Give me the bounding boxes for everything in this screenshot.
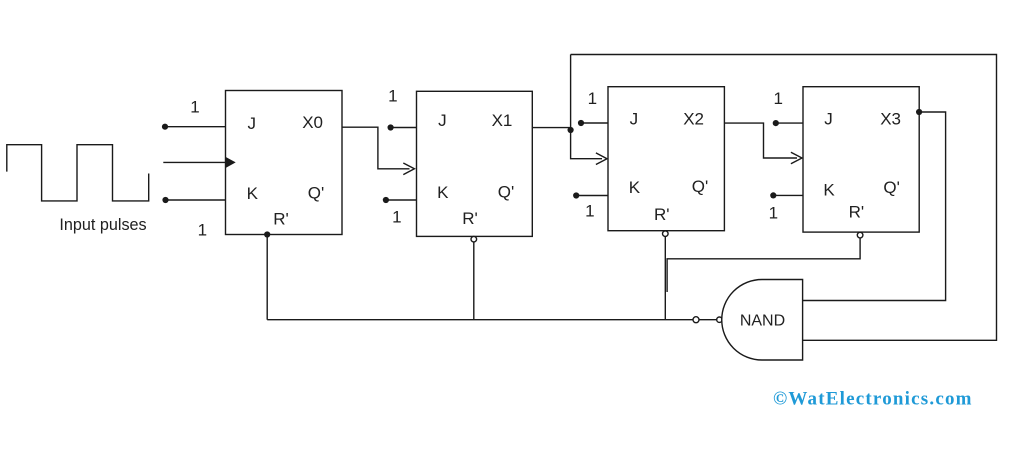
wire R'4 path: [667, 238, 860, 292]
svg-text:R': R': [462, 209, 478, 228]
arrowhead clock FF4 (open): [791, 152, 802, 164]
wire feedback vertical at X1: [571, 55, 602, 159]
svg-text:R': R': [654, 205, 670, 224]
svg-text:1: 1: [190, 98, 199, 117]
node X1 junction dot: [568, 127, 574, 133]
wire clock input FF1: [163, 161, 226, 163]
svg-text:1: 1: [588, 89, 597, 108]
input pulses waveform: [7, 145, 149, 201]
svg-text:K: K: [629, 178, 641, 197]
wire R'1 drop: [266, 235, 268, 320]
wire K input FF1: [166, 199, 226, 201]
flip-flop FF3 box: [608, 87, 724, 231]
node J1 dot: [162, 124, 168, 130]
svg-text:X0: X0: [302, 113, 323, 132]
svg-text:©WatElectronics.com: ©WatElectronics.com: [773, 389, 973, 410]
node X3 tap dot: [916, 109, 922, 115]
wire K input FF3: [576, 195, 608, 197]
flip-flop FF2 box: [417, 91, 533, 236]
node K4 dot: [770, 192, 776, 198]
node K3 dot: [573, 192, 579, 198]
svg-text:X1: X1: [492, 111, 513, 130]
svg-text:1: 1: [388, 87, 397, 106]
svg-text:J: J: [630, 109, 639, 128]
NAND inversion bubble: [717, 317, 722, 322]
svg-text:Q': Q': [883, 178, 899, 197]
svg-text:NAND: NAND: [740, 313, 785, 330]
wire R'3 drop: [664, 237, 666, 320]
svg-text:X3: X3: [880, 109, 901, 128]
svg-text:K: K: [823, 180, 835, 199]
svg-text:1: 1: [773, 89, 782, 108]
svg-text:Q': Q': [308, 183, 324, 202]
bubble R'4: [857, 232, 863, 238]
svg-text:X2: X2: [683, 109, 704, 128]
node J4 dot: [773, 120, 779, 126]
node K1 dot: [162, 197, 168, 203]
node J2 dot: [388, 124, 394, 130]
wire J input FF4: [776, 122, 803, 124]
flip-flop FF4 box: [803, 87, 919, 232]
wire top feedback: [571, 55, 997, 341]
wire R' bus to NAND: [267, 319, 693, 321]
svg-text:J: J: [824, 109, 833, 128]
wire between bubbles: [699, 319, 717, 321]
wire J input FF2: [391, 127, 417, 129]
NAND gate U1 body: [722, 280, 803, 361]
node R'1 dot: [264, 231, 270, 237]
flip-flop FF1 box: [226, 91, 343, 235]
node J3 dot: [578, 120, 584, 126]
svg-text:J: J: [438, 111, 447, 130]
wire X2 to FF4 clock: [724, 123, 797, 158]
wire X3 to NAND input: [803, 112, 946, 301]
svg-text:Q': Q': [498, 182, 514, 201]
arrowhead clock FF2 (open): [403, 163, 414, 175]
wire K input FF2: [386, 199, 417, 201]
arrowhead clock FF3 (open): [596, 153, 607, 165]
svg-text:R': R': [273, 210, 289, 229]
svg-text:1: 1: [585, 201, 594, 220]
wire R'2 drop: [473, 242, 475, 320]
svg-text:R': R': [849, 202, 865, 221]
node K2 dot: [383, 197, 389, 203]
wire J input FF1: [165, 126, 226, 128]
svg-text:1: 1: [392, 207, 401, 226]
wire K input FF4: [773, 194, 803, 196]
arrowhead clock FF1: [226, 157, 236, 168]
svg-text:Input pulses: Input pulses: [59, 216, 146, 234]
svg-text:1: 1: [769, 203, 778, 222]
svg-text:1: 1: [198, 220, 207, 239]
wire J input FF3: [581, 122, 608, 124]
svg-text:K: K: [437, 183, 449, 202]
bubble R'3: [663, 231, 669, 237]
svg-text:J: J: [247, 114, 256, 133]
svg-text:Q': Q': [692, 177, 708, 196]
bubble R'2: [471, 236, 477, 242]
bubble on R' bus: [693, 317, 699, 323]
wire X0 to FF2 clock: [342, 127, 410, 169]
wire X1 output: [532, 127, 570, 129]
svg-text:K: K: [247, 184, 259, 203]
